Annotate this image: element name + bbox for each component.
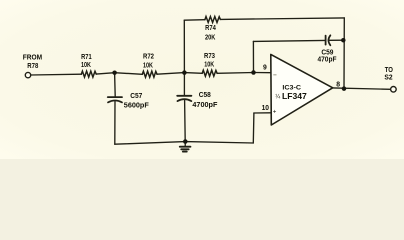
wire C59 branch horizontal [253, 40, 325, 41]
svg-text:C57: C57 [130, 93, 142, 100]
svg-text:LF347: LF347 [282, 91, 307, 101]
wire pin10 branch horizontal [254, 112, 271, 114]
resistor R71 [81, 71, 96, 77]
node C59 junction dot [341, 38, 346, 43]
wire C58 vertical from J2 [183, 73, 185, 96]
wire C59 to right vertical [330, 39, 344, 41]
svg-text:+: + [273, 108, 277, 115]
svg-text:R72: R72 [143, 53, 154, 60]
svg-text:10: 10 [262, 105, 270, 112]
svg-text:R78: R78 [27, 63, 38, 70]
svg-text:C59: C59 [321, 50, 333, 57]
svg-text:S2: S2 [384, 75, 392, 82]
capacitor C59 [325, 36, 327, 45]
op-amp U1 triangle IC3-C [271, 54, 333, 125]
svg-text:10K: 10K [143, 63, 153, 70]
wire bottom rail [115, 142, 254, 145]
svg-text:C58: C58 [199, 92, 211, 99]
svg-text:8: 8 [336, 81, 340, 88]
svg-text:TO: TO [385, 67, 394, 74]
resistor R74 [205, 17, 221, 23]
paper background [0, 0, 404, 159]
node J2 junction dot [182, 70, 187, 75]
svg-text:10K: 10K [204, 62, 214, 69]
wire vertical J2 up to feedback resistor [183, 20, 185, 72]
svg-text:4700pF: 4700pF [192, 102, 217, 109]
wire R73 to J3 and to op-amp pin 9 [217, 72, 271, 75]
wire R71 to J1 and on to R72 [96, 73, 142, 75]
wire C57 vertical from J1 [114, 73, 117, 97]
svg-text:R74: R74 [205, 25, 216, 32]
svg-text:R73: R73 [204, 53, 215, 60]
svg-text:470pF: 470pF [318, 57, 337, 64]
svg-text:20K: 20K [205, 35, 215, 42]
svg-text:FROM: FROM [23, 55, 43, 62]
capacitor C58 [177, 95, 191, 97]
svg-text:10K: 10K [81, 62, 91, 69]
wire right vertical down to output [343, 18, 345, 89]
op-amp minus input marking [273, 73, 276, 76]
resistor R72 [142, 71, 157, 77]
wire feedback top left segment [184, 19, 205, 22]
node J3 junction dot [251, 70, 256, 75]
svg-text:9: 9 [263, 65, 267, 72]
node output junction dot [342, 86, 347, 91]
wire C59 branch vertical from J3 [252, 41, 254, 72]
wire R72 to J2 and on to R73 [157, 73, 202, 75]
resistor R73 [202, 70, 217, 76]
wire feedback top right segment [220, 18, 344, 20]
capacitor C57 [108, 96, 122, 98]
svg-text:R71: R71 [81, 54, 92, 61]
output terminal circle TO S2 [391, 87, 397, 93]
svg-text:5600pF: 5600pF [124, 103, 149, 110]
wire pin10 branch vertical [252, 113, 255, 143]
node ground junction dot [183, 139, 188, 144]
wire output [333, 88, 391, 89]
input terminal circle FROM R78 [25, 72, 30, 77]
ground [184, 142, 186, 146]
wire input to R71 [31, 73, 82, 76]
node J1 junction dot [112, 70, 117, 75]
